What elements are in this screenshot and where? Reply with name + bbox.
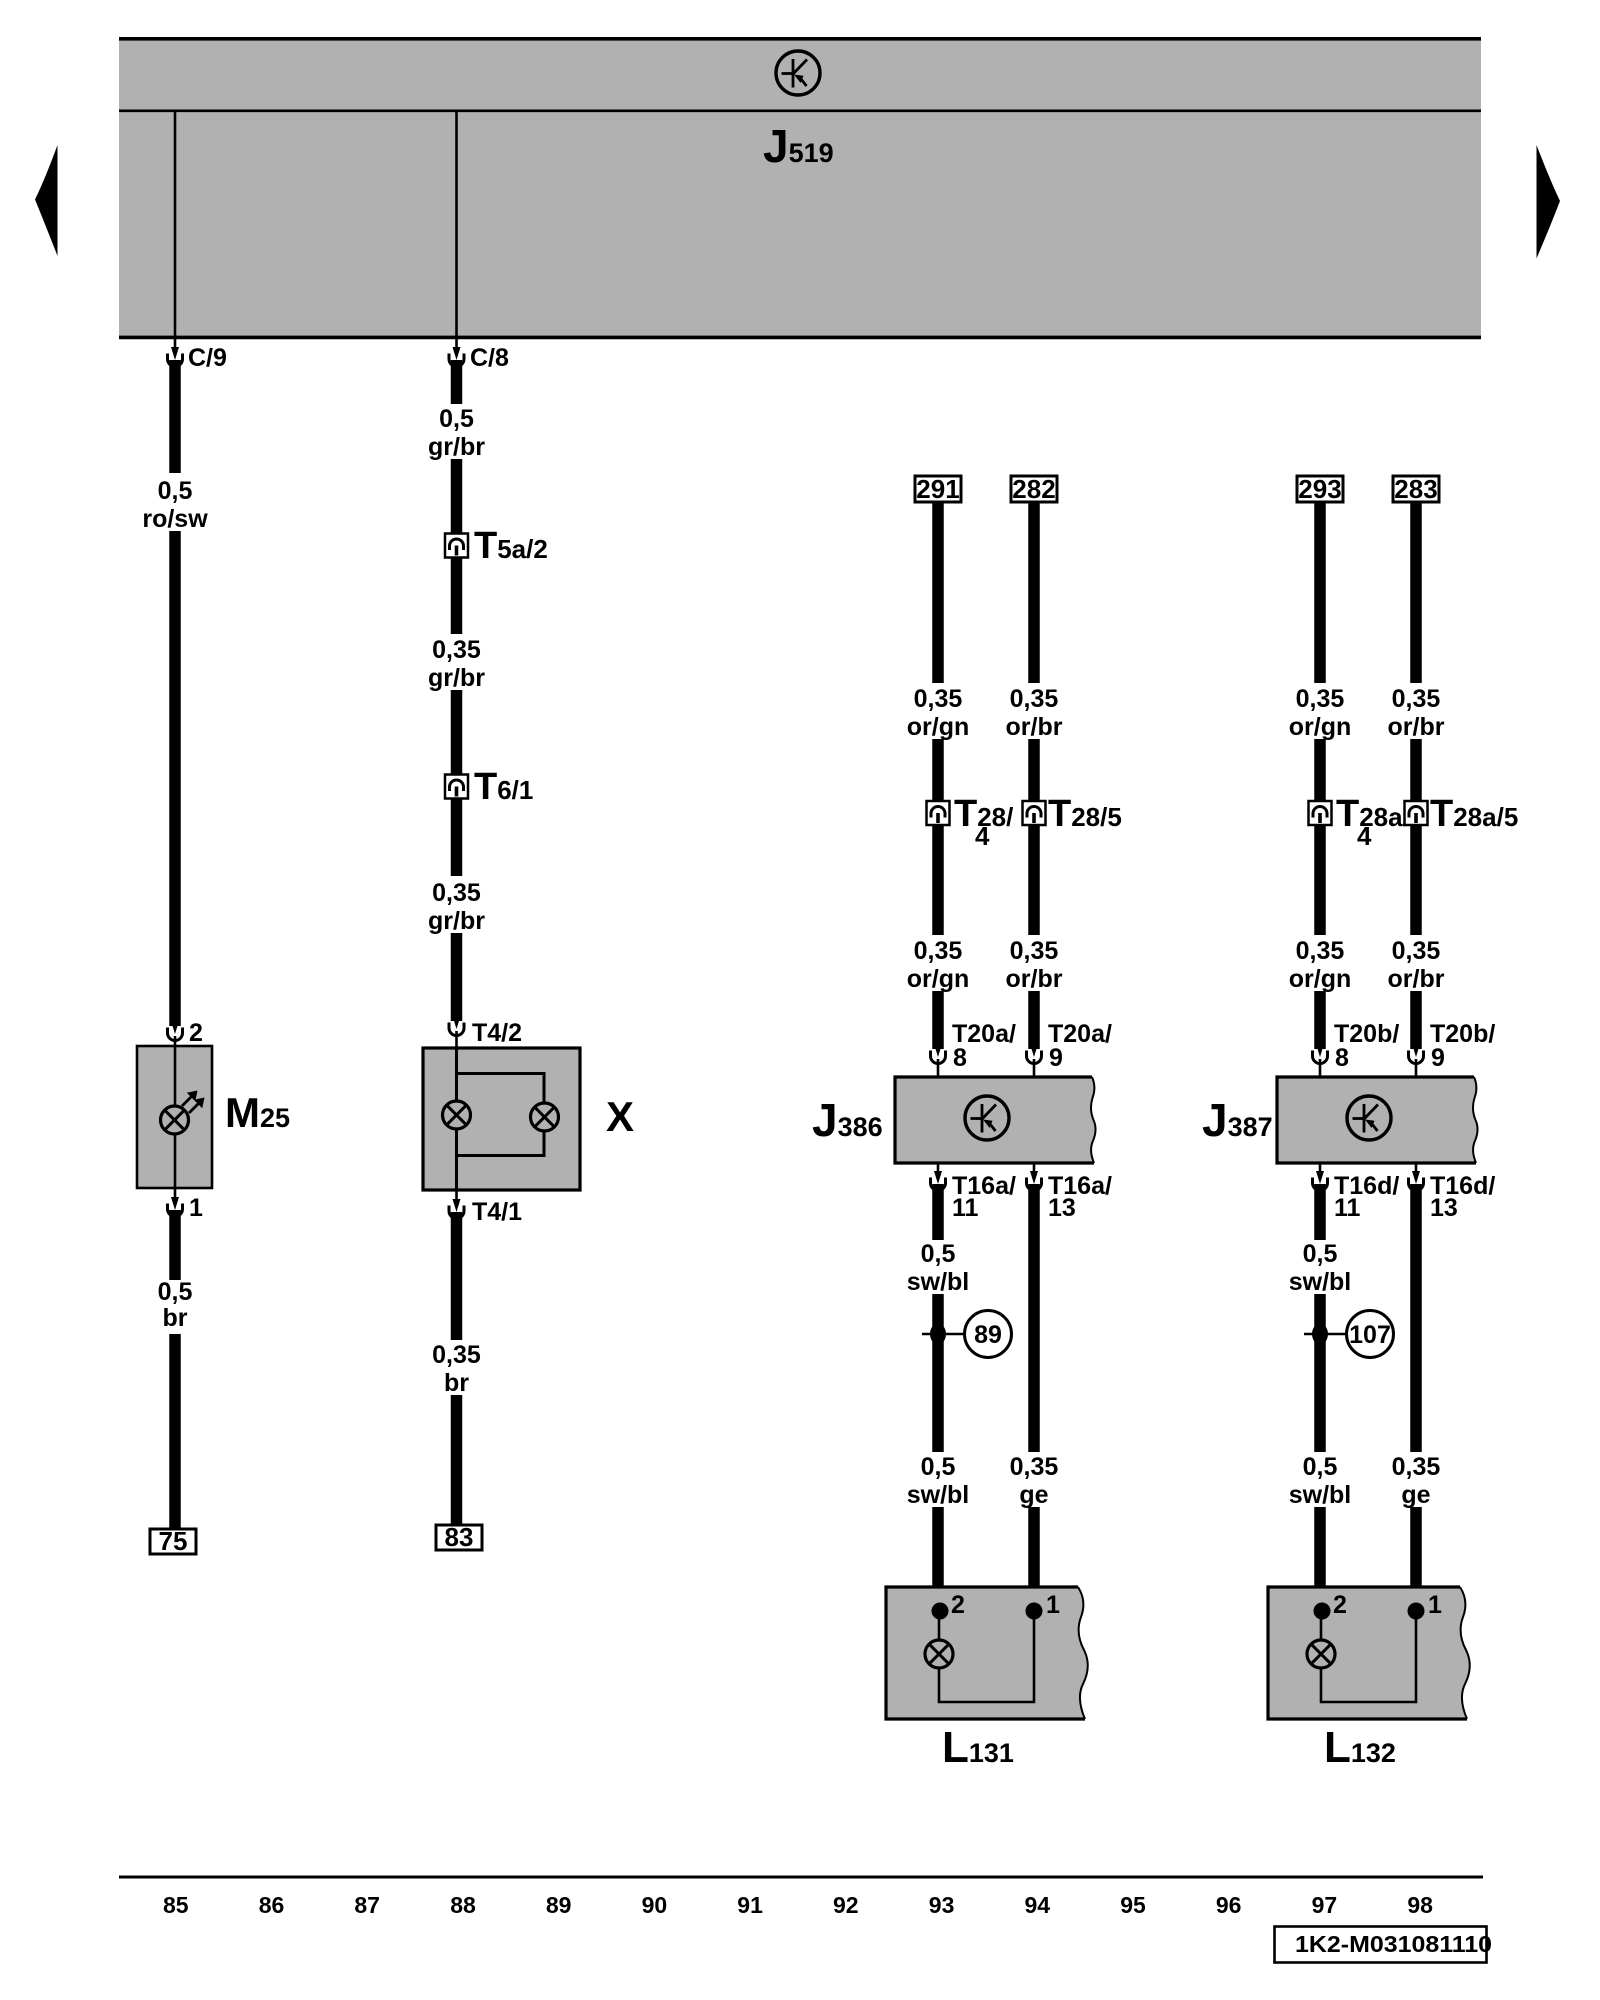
svg-text:gr/br: gr/br [428, 433, 485, 461]
wire or/br segment 2 [1028, 824, 1040, 935]
wire stub from J519 pin C/8 [455, 339, 458, 350]
pin connector T16d/13 [1409, 1171, 1424, 1191]
svg-text:0,35: 0,35 [1296, 685, 1345, 713]
terminal box 291 [915, 476, 961, 502]
svg-text:0,5: 0,5 [158, 477, 193, 505]
wire or/gn segment 2 [1314, 824, 1326, 935]
terminal box 75 [150, 1529, 196, 1554]
svg-text:9: 9 [1431, 1044, 1445, 1072]
wire sw/bl final segment [932, 1507, 944, 1609]
wire 0,5 gr/br segment 1 [451, 360, 463, 404]
wire 0,5 sw/bl segment 1 [932, 1184, 944, 1240]
wire 0,35 br lower segment [451, 1395, 463, 1526]
svg-text:0,5: 0,5 [921, 1240, 956, 1268]
stub below J386 pin 11 [937, 1163, 940, 1174]
svg-text:ro/sw: ro/sw [142, 505, 208, 533]
control unit J386 box [895, 1077, 1096, 1163]
svg-text:92: 92 [833, 1892, 859, 1918]
svg-text:2: 2 [189, 1019, 203, 1047]
wire sw/bl final segment [1314, 1507, 1326, 1609]
terminal box 282 [1011, 476, 1057, 502]
svg-text:gr/br: gr/br [428, 664, 485, 692]
stub below J387 pin 11 [1319, 1163, 1322, 1174]
svg-text:T5a/2: T5a/2 [474, 525, 548, 567]
branch to second lamp in X [457, 1074, 545, 1104]
stub into J386 pin 9 [1033, 1059, 1036, 1078]
LED arrow 2 of M25 [189, 1098, 205, 1114]
node dot 107 [1312, 1324, 1328, 1345]
node tick line 89 [922, 1333, 964, 1336]
svg-text:0,35: 0,35 [914, 685, 963, 713]
svg-text:93: 93 [929, 1892, 955, 1918]
lamp 2 in X [531, 1103, 559, 1131]
control unit J387 box [1277, 1077, 1478, 1163]
svg-text:0,35: 0,35 [914, 937, 963, 965]
svg-text:11: 11 [1334, 1194, 1361, 1222]
svg-text:94: 94 [1025, 1892, 1051, 1918]
svg-text:T4/2: T4/2 [472, 1019, 522, 1047]
L132 box border [1268, 1587, 1467, 1719]
wire 0,5 ro/sw upper segment [169, 360, 181, 473]
wire ge final segment [1410, 1507, 1422, 1609]
svg-text:T28a/5: T28a/5 [1430, 793, 1518, 835]
node reference circle 107 [1347, 1311, 1394, 1358]
wire or/br segment 1 [1410, 502, 1422, 683]
svg-text:1: 1 [189, 1194, 203, 1222]
terminal box 293 [1297, 476, 1343, 502]
svg-text:85: 85 [163, 1892, 189, 1918]
svg-text:0,5: 0,5 [1303, 1240, 1338, 1268]
wire segment to J386 pin 9 [1028, 991, 1040, 1049]
svg-text:1: 1 [1046, 1591, 1060, 1619]
wire 0,5 br lower segment [169, 1334, 181, 1530]
J386 box border [895, 1077, 1094, 1163]
svg-text:11: 11 [952, 1194, 979, 1222]
svg-text:0,35: 0,35 [1010, 937, 1059, 965]
stub below J386 pin 13 [1033, 1163, 1036, 1174]
svg-text:ge: ge [1401, 1481, 1430, 1509]
J519 top border [119, 37, 1481, 41]
svg-text:or/br: or/br [1388, 713, 1445, 741]
wire ge segment 1 [1028, 1184, 1040, 1452]
wire 0,5 br upper segment [169, 1210, 181, 1280]
svg-text:L131: L131 [942, 1723, 1014, 1772]
svg-text:291: 291 [916, 474, 959, 504]
wire inside X upper [455, 1048, 458, 1101]
svg-text:98: 98 [1407, 1892, 1433, 1918]
wire 0,35 br upper segment [451, 1212, 463, 1340]
wire or/gn segment 2 [932, 824, 944, 935]
svg-text:293: 293 [1298, 474, 1341, 504]
LED arrow 1 of M25 [182, 1091, 198, 1107]
svg-text:0,5: 0,5 [1303, 1453, 1338, 1481]
svg-text:T28/5: T28/5 [1048, 793, 1122, 835]
wire 0,5 ro/sw lower segment [169, 531, 181, 1026]
pin connector T16a/13 [1027, 1171, 1042, 1191]
bottom scale line [119, 1876, 1483, 1879]
svg-text:283: 283 [1394, 474, 1437, 504]
wire or/br segment 2 [1410, 824, 1422, 935]
wire segment to X [451, 933, 463, 1021]
J386 wavy edge [1091, 1077, 1096, 1163]
wire or/gn segment 1 [1314, 502, 1326, 683]
svg-text:91: 91 [737, 1892, 763, 1918]
connector T28/5 right symbol [1023, 801, 1046, 825]
svg-text:0,35: 0,35 [1010, 685, 1059, 713]
lamp return wire in L132 [1321, 1611, 1416, 1702]
wire 0,5 sw/bl segment 1 [1314, 1184, 1326, 1240]
svg-text:or/br: or/br [1006, 965, 1063, 993]
svg-text:or/gn: or/gn [907, 713, 970, 741]
pin connector T20a/9 [1027, 1044, 1042, 1064]
wire segment to T28a/ connector [1314, 739, 1326, 802]
svg-text:0,35: 0,35 [1296, 937, 1345, 965]
svg-text:89: 89 [974, 1321, 1002, 1349]
lamp fixture X box [423, 1048, 580, 1190]
svg-text:or/br: or/br [1006, 713, 1063, 741]
terminal dot 1 in L131 [1026, 1603, 1043, 1620]
connector T5a/2 symbol [445, 534, 468, 558]
lamp symbol in M25 [161, 1106, 189, 1134]
svg-text:8: 8 [953, 1044, 967, 1072]
node dot 89 [930, 1324, 946, 1345]
stub into M25 [174, 1036, 177, 1047]
wire segment to J387 pin 8 [1314, 991, 1326, 1049]
wire from pin 2 to lamp in L132 [1320, 1611, 1323, 1641]
J519 inner bus line [119, 110, 1481, 113]
wire segment to T5a/2 [451, 459, 463, 534]
svg-text:1K2-M031081110: 1K2-M031081110 [1295, 1931, 1492, 1957]
svg-text:br: br [444, 1369, 469, 1397]
svg-text:9: 9 [1049, 1044, 1063, 1072]
svg-text:96: 96 [1216, 1892, 1242, 1918]
terminal dot 2 in L131 [932, 1603, 949, 1620]
svg-text:0,35: 0,35 [1392, 937, 1441, 965]
wire inside X lower [455, 1129, 458, 1190]
stub below J387 pin 13 [1415, 1163, 1418, 1174]
stub into J387 pin 9 [1415, 1059, 1418, 1078]
pin connector T16a/11 [931, 1171, 946, 1191]
svg-text:0,5: 0,5 [439, 405, 474, 433]
svg-text:95: 95 [1120, 1892, 1146, 1918]
J387 box border [1277, 1077, 1476, 1163]
svg-text:4: 4 [1357, 821, 1372, 851]
svg-text:or/gn: or/gn [907, 965, 970, 993]
svg-text:0,35: 0,35 [1392, 1453, 1441, 1481]
svg-text:L132: L132 [1324, 1723, 1396, 1772]
lamp symbol in L131 [925, 1640, 953, 1668]
stub into J386 pin 8 [937, 1059, 940, 1078]
node reference circle 89 [965, 1311, 1012, 1358]
svg-text:sw/bl: sw/bl [907, 1481, 970, 1509]
pin connector C/9 [168, 347, 183, 367]
svg-text:88: 88 [450, 1892, 476, 1918]
svg-text:M25: M25 [225, 1089, 290, 1136]
svg-text:2: 2 [1333, 1591, 1347, 1619]
lamp return wire in L131 [939, 1611, 1034, 1702]
wire segment to T28a/5 connector [1410, 739, 1422, 802]
wire or/gn segment 1 [932, 502, 944, 683]
J387 wavy edge [1473, 1077, 1478, 1163]
L132 wavy edge [1460, 1587, 1470, 1719]
svg-text:C/8: C/8 [470, 344, 509, 372]
connector T28a/5 right symbol [1405, 801, 1428, 825]
wire 0,5 sw/bl segment 2 [1314, 1294, 1326, 1452]
svg-text:0,35: 0,35 [432, 879, 481, 907]
page continuation arrow left [35, 145, 58, 256]
terminal box 283 [1393, 476, 1439, 502]
L131 wavy edge [1078, 1587, 1088, 1719]
stub below X [455, 1190, 458, 1202]
svg-text:C/9: C/9 [188, 344, 227, 372]
svg-text:83: 83 [445, 1522, 474, 1552]
wire 0,35 gr/br segment 3 [451, 798, 463, 876]
svg-text:or/gn: or/gn [1289, 965, 1352, 993]
terminal box 83 [436, 1525, 482, 1550]
control unit symbol in J386 [965, 1096, 1009, 1140]
wire stub from J519 pin C/9 [174, 339, 177, 350]
svg-text:4: 4 [975, 821, 990, 851]
wire segment to T28/5 connector [1028, 739, 1040, 802]
stub below M25 [174, 1188, 177, 1200]
svg-text:97: 97 [1312, 1892, 1338, 1918]
svg-text:0,35: 0,35 [432, 636, 481, 664]
motor M25 box [137, 1046, 212, 1188]
svg-text:1: 1 [1428, 1591, 1442, 1619]
svg-text:X: X [606, 1093, 634, 1140]
svg-text:8: 8 [1335, 1044, 1349, 1072]
pin connector T20a/8 [931, 1044, 946, 1064]
svg-text:0,5: 0,5 [158, 1278, 193, 1306]
svg-text:sw/bl: sw/bl [907, 1268, 970, 1296]
pin connector T20b/8 [1313, 1044, 1328, 1064]
svg-text:sw/bl: sw/bl [1289, 1268, 1352, 1296]
wire segment to T28/ connector [932, 739, 944, 802]
svg-text:107: 107 [1349, 1321, 1391, 1349]
lamp L131 box [886, 1587, 1088, 1719]
node tick line 107 [1304, 1333, 1346, 1336]
L131 box border [886, 1587, 1085, 1719]
stub into J387 pin 8 [1319, 1059, 1322, 1078]
wire inside M25 upper [174, 1046, 177, 1106]
wire ge final segment [1028, 1507, 1040, 1609]
svg-text:0,35: 0,35 [1010, 1453, 1059, 1481]
control unit symbol in J519 [776, 51, 820, 95]
svg-text:0,5: 0,5 [921, 1453, 956, 1481]
wire segment to J387 pin 9 [1410, 991, 1422, 1049]
svg-text:br: br [163, 1304, 188, 1332]
svg-text:J386: J386 [812, 1094, 883, 1146]
branch return in X [457, 1131, 545, 1156]
svg-text:sw/bl: sw/bl [1289, 1481, 1352, 1509]
lamp L132 box [1268, 1587, 1470, 1719]
stub into X box [455, 1031, 458, 1049]
svg-text:13: 13 [1048, 1194, 1076, 1222]
connector T28/28/5 left symbol [927, 801, 950, 825]
pin 2 connector at M25 [168, 1021, 183, 1041]
svg-text:T6/1: T6/1 [474, 766, 533, 808]
wire inside J519 to pin C/9 [174, 112, 177, 337]
wire segment to T6/1 [451, 690, 463, 775]
svg-text:or/gn: or/gn [1289, 713, 1352, 741]
svg-text:T28a/: T28a/ [1336, 793, 1410, 835]
terminal dot 1 in L132 [1408, 1603, 1425, 1620]
connector T28a/28a/5 left symbol [1309, 801, 1332, 825]
page continuation arrow right [1537, 145, 1561, 259]
wire 0,35 gr/br segment [451, 557, 463, 634]
svg-text:gr/br: gr/br [428, 907, 485, 935]
control unit symbol in J387 [1347, 1096, 1391, 1140]
svg-text:75: 75 [159, 1526, 188, 1556]
control unit J519 box [119, 37, 1481, 339]
svg-text:89: 89 [546, 1892, 572, 1918]
lamp 1 in X [443, 1101, 471, 1129]
wire segment to J386 pin 8 [932, 991, 944, 1049]
svg-text:0,35: 0,35 [432, 1341, 481, 1369]
J519 bottom border [119, 336, 1481, 340]
diagram id box [1275, 1927, 1487, 1963]
svg-text:T4/1: T4/1 [472, 1198, 522, 1226]
wire inside M25 lower [174, 1134, 177, 1188]
pin 1 connector below M25 [168, 1197, 183, 1217]
pin connector T4/1 [449, 1199, 464, 1219]
pin connector T4/2 [449, 1016, 464, 1036]
svg-text:2: 2 [951, 1591, 965, 1619]
svg-text:13: 13 [1430, 1194, 1458, 1222]
lamp symbol in L132 [1307, 1640, 1335, 1668]
svg-text:J387: J387 [1202, 1094, 1273, 1146]
wire inside J519 to pin C/8 [455, 112, 458, 337]
connector T6/1 symbol [445, 775, 468, 799]
wire or/br segment 1 [1028, 502, 1040, 683]
svg-text:87: 87 [354, 1892, 380, 1918]
wire ge segment 1 [1410, 1184, 1422, 1452]
svg-text:or/br: or/br [1388, 965, 1445, 993]
pin connector T20b/9 [1409, 1044, 1424, 1064]
svg-text:282: 282 [1012, 474, 1055, 504]
pin connector T16d/11 [1313, 1171, 1328, 1191]
wire 0,5 sw/bl segment 2 [932, 1294, 944, 1452]
svg-text:86: 86 [259, 1892, 285, 1918]
svg-text:0,35: 0,35 [1392, 685, 1441, 713]
svg-text:90: 90 [642, 1892, 668, 1918]
svg-text:ge: ge [1019, 1481, 1048, 1509]
bottom grid numbers 85-98 [163, 1892, 1433, 1918]
wire from pin 2 to lamp in L131 [938, 1611, 941, 1641]
terminal dot 2 in L132 [1314, 1603, 1331, 1620]
pin connector C/8 [449, 347, 464, 367]
